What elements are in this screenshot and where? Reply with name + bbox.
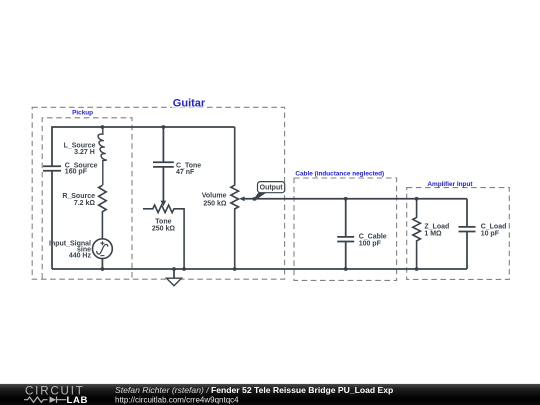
capacitor C_Cable bbox=[337, 199, 387, 269]
svg-text:C_Load: C_Load bbox=[481, 223, 507, 230]
svg-text:Z_Load: Z_Load bbox=[424, 223, 449, 230]
svg-text:47 nF: 47 nF bbox=[176, 169, 195, 176]
svg-text:Guitar: Guitar bbox=[173, 97, 206, 109]
potentiometer Volume bbox=[202, 127, 245, 269]
svg-text:3.27 H: 3.27 H bbox=[74, 149, 95, 156]
capacitor C_Tone bbox=[153, 127, 201, 176]
svg-text:440 Hz: 440 Hz bbox=[69, 253, 92, 260]
enclosure box Cable (inductance neglected) bbox=[294, 171, 397, 281]
wire bottom bus bbox=[52, 268, 467, 270]
logo CircuitLab bbox=[24, 385, 88, 405]
svg-text:Volume: Volume bbox=[202, 193, 227, 200]
svg-text:7.2 kΩ: 7.2 kΩ bbox=[74, 200, 96, 207]
svg-text:10 pF: 10 pF bbox=[481, 231, 500, 238]
wire left branch lower bbox=[51, 171, 53, 269]
svg-text:250 kΩ: 250 kΩ bbox=[203, 200, 227, 207]
ground bbox=[167, 269, 182, 286]
enclosure box Amplifier Input bbox=[407, 181, 510, 280]
svg-text:Tone: Tone bbox=[155, 218, 171, 225]
node Output callout bbox=[253, 182, 285, 201]
svg-text:http://circuitlab.com/crre4w9q: http://circuitlab.com/crre4w9qntqc4 bbox=[115, 395, 239, 404]
inductor L_Source bbox=[64, 127, 107, 185]
potentiometer Tone wiper wire bbox=[161, 167, 167, 206]
svg-text:Pickup: Pickup bbox=[72, 109, 93, 116]
resistor Z_Load bbox=[413, 199, 449, 269]
wire top rail bbox=[52, 127, 235, 166]
potentiometer Tone bbox=[143, 205, 184, 269]
svg-text:Amplifier Input: Amplifier Input bbox=[427, 181, 473, 188]
wire output rail bbox=[244, 198, 467, 200]
svg-text:1 MΩ: 1 MΩ bbox=[424, 231, 442, 238]
enclosure box Pickup bbox=[42, 109, 132, 278]
svg-text:100 pF: 100 pF bbox=[359, 241, 382, 248]
svg-text:160 pF: 160 pF bbox=[65, 169, 88, 176]
svg-text:LAB: LAB bbox=[67, 395, 89, 405]
capacitor C_Source bbox=[43, 163, 98, 176]
svg-text:Cable (inductance neglected): Cable (inductance neglected) bbox=[295, 171, 384, 178]
junction dots bbox=[101, 125, 419, 271]
resistor R_Source bbox=[62, 185, 106, 239]
svg-text:C_Cable: C_Cable bbox=[359, 234, 387, 241]
enclosure box Guitar bbox=[32, 96, 284, 279]
svg-text:250 kΩ: 250 kΩ bbox=[152, 226, 176, 233]
footer bar bbox=[0, 384, 540, 405]
capacitor C_Load bbox=[459, 199, 507, 269]
svg-text:Stefan Richter (rstefan) / Fen: Stefan Richter (rstefan) / Fender 52 Tel… bbox=[115, 385, 393, 395]
svg-text:Output: Output bbox=[260, 185, 284, 192]
voltage source Input_Signal bbox=[49, 239, 112, 269]
